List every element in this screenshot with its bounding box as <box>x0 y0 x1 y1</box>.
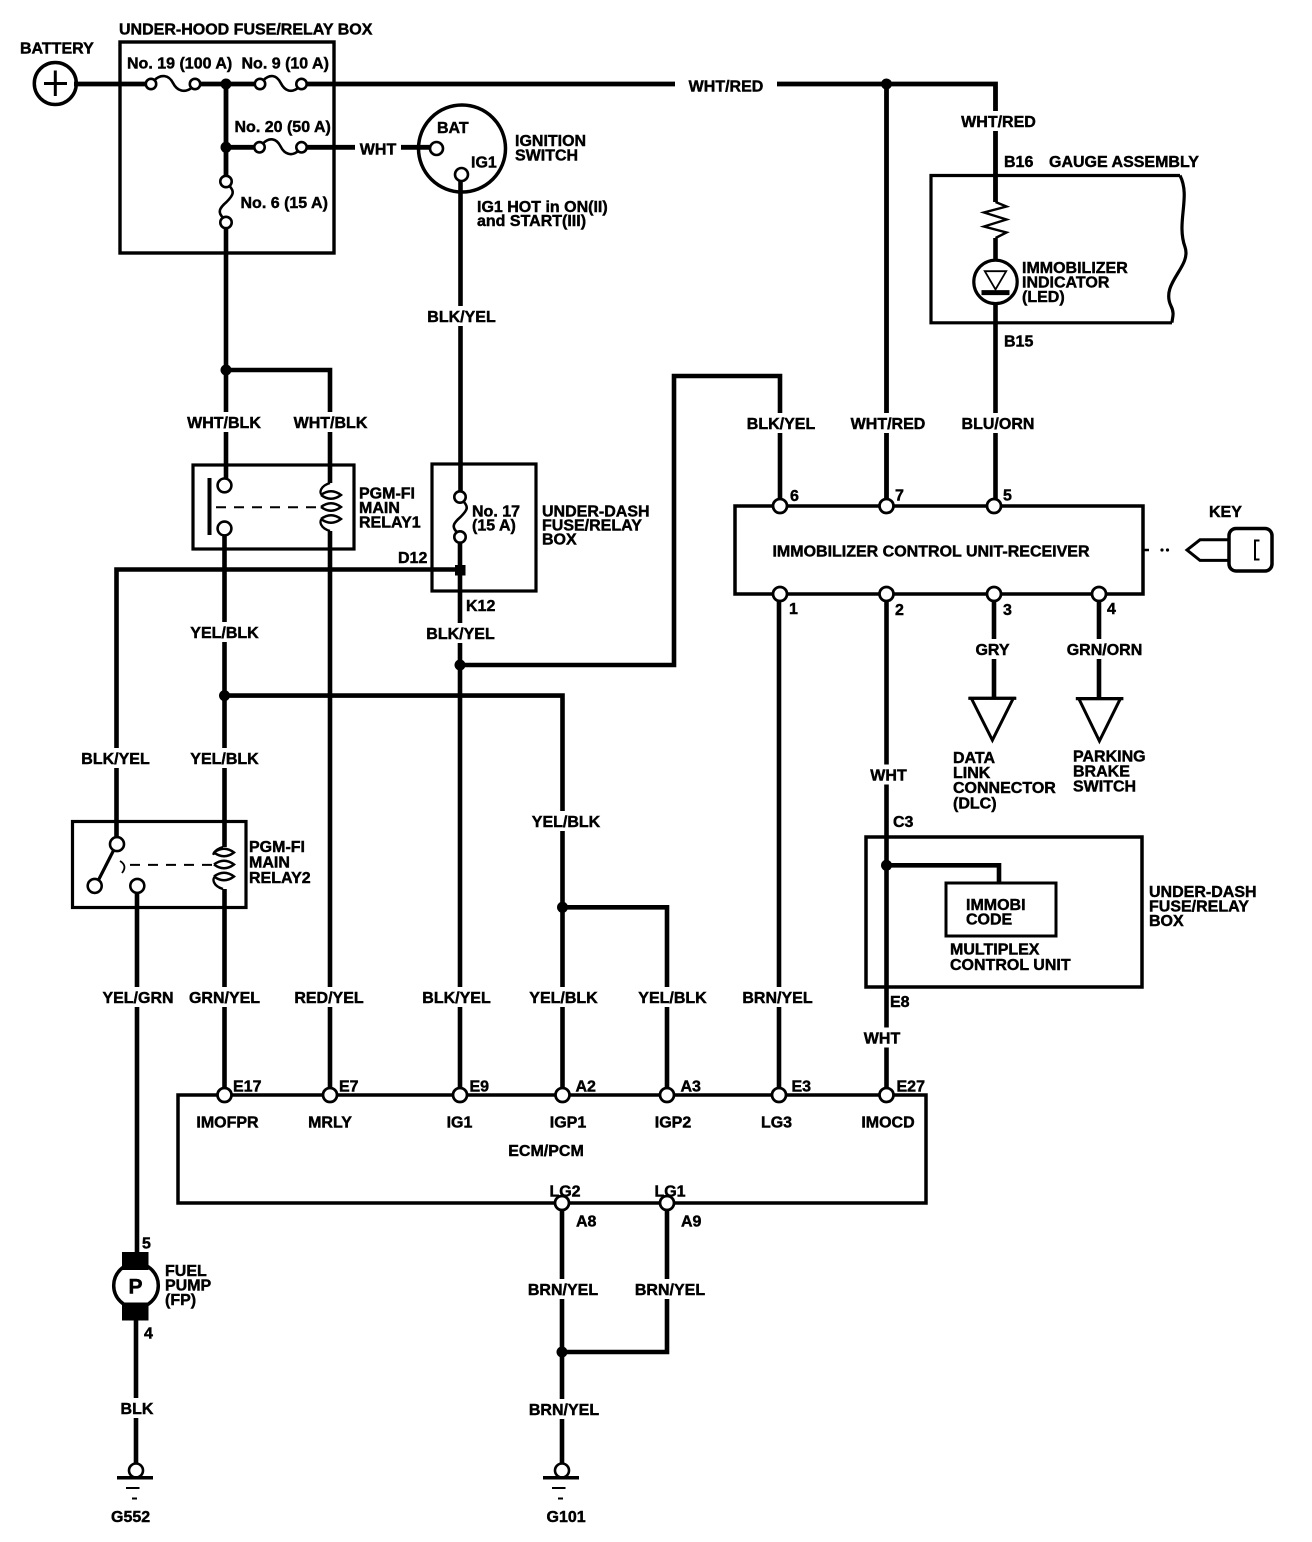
svg-text:LG2: LG2 <box>549 1184 580 1201</box>
wire GRN/ORN immobilizer pin 4 to parking brake switch arrow <box>1097 600 1102 698</box>
svg-text:No. 20 (50 A): No. 20 (50 A) <box>235 119 331 136</box>
svg-text:B16: B16 <box>1004 154 1033 171</box>
svg-text:YEL/BLK: YEL/BLK <box>532 814 601 831</box>
svg-text:ECM/PCM: ECM/PCM <box>508 1143 584 1160</box>
ECM top pins <box>218 1088 232 1102</box>
svg-text:A2: A2 <box>576 1079 597 1096</box>
svg-text:WHT: WHT <box>870 768 907 785</box>
label YEL/BLK A3 <box>637 987 709 1007</box>
svg-text:IG1: IG1 <box>447 1115 473 1132</box>
wire BLU/ORN LED B15 down to immobilizer pin 5 <box>993 302 998 500</box>
label YEL/GRN <box>101 987 175 1007</box>
svg-text:CONTROL UNIT: CONTROL UNIT <box>950 957 1071 974</box>
svg-text:WHT/RED: WHT/RED <box>689 79 764 96</box>
wire main WHT/RED bus to gauge assembly corner <box>307 84 996 202</box>
label BLK/YEL K12 <box>426 623 496 643</box>
svg-text:MULTIPLEX: MULTIPLEX <box>950 942 1040 959</box>
svg-text:(LED): (LED) <box>1022 289 1065 306</box>
label YEL/BLK A2 <box>528 987 600 1007</box>
immobilizer indicator LED <box>974 260 1017 303</box>
wire RED/YEL relay1 coil down to ECM pin E7 <box>328 531 333 1089</box>
wire BLK fuel pump down to ground G552 <box>134 1320 139 1465</box>
svg-text:KEY: KEY <box>1209 504 1242 521</box>
fuse No.19 (100 A) <box>146 79 156 89</box>
wire BRN/YEL ECM LG2 down to ground junction <box>560 1209 565 1352</box>
svg-text:YEL/BLK: YEL/BLK <box>638 990 707 1007</box>
svg-text:No. 9 (10 A): No. 9 (10 A) <box>242 56 329 73</box>
svg-text:E9: E9 <box>470 1079 490 1096</box>
label BLU/ORN pin5 <box>958 413 1038 433</box>
svg-text:No. 6 (15 A): No. 6 (15 A) <box>241 195 328 212</box>
node YEL/BLK A2/A3 junction <box>557 902 568 913</box>
svg-text:4: 4 <box>144 1326 153 1343</box>
svg-text:IMOCD: IMOCD <box>861 1115 914 1132</box>
svg-text:BRN/YEL: BRN/YEL <box>529 1402 599 1419</box>
relay1 coil <box>321 483 330 495</box>
node bus-fusebox junction <box>221 79 232 90</box>
svg-text:YEL/BLK: YEL/BLK <box>190 625 259 642</box>
wire D12 horizontal to left column <box>117 570 461 838</box>
ECM bottom pins LG2 LG1 <box>555 1196 569 1210</box>
ECM/PCM box <box>178 1095 926 1203</box>
PGM-FI main relay1 box <box>193 465 354 549</box>
svg-text:PGM-FI: PGM-FI <box>249 839 305 856</box>
svg-text:WHT: WHT <box>864 1031 901 1048</box>
svg-text:BAT: BAT <box>437 120 469 137</box>
svg-text:GRY: GRY <box>975 642 1009 659</box>
node No.20 tap <box>221 142 232 153</box>
under-hood fuse/relay box <box>120 42 334 253</box>
key symbol <box>1229 529 1272 572</box>
svg-text:4: 4 <box>1107 601 1116 618</box>
svg-text:WHT/RED: WHT/RED <box>851 416 926 433</box>
svg-text:IMMOBILIZER CONTROL UNIT-RECEI: IMMOBILIZER CONTROL UNIT-RECEIVER <box>772 544 1089 561</box>
svg-text:BLK/YEL: BLK/YEL <box>426 626 495 643</box>
under-dash fuse/relay box (multiplex) <box>866 837 1142 987</box>
ignition switch <box>419 105 506 192</box>
svg-text:RED/YEL: RED/YEL <box>294 990 364 1007</box>
wire YEL/BLK down to relay2 coil <box>222 696 227 847</box>
svg-text:BATTERY: BATTERY <box>20 41 94 58</box>
wire No.20 row to WHT to ignition BAT terminal <box>226 145 254 150</box>
relay1 fixed contact bar <box>208 478 212 535</box>
wire WHT immobilizer pin 2 down through under-dash box to ECM pin E27 <box>884 600 889 1089</box>
label BRN/YEL G101 <box>527 1399 601 1419</box>
label BLK/YEL E9 <box>422 987 492 1007</box>
svg-text:(FP): (FP) <box>165 1292 196 1309</box>
svg-text:YEL/BLK: YEL/BLK <box>529 990 598 1007</box>
node bus to pin7 junction <box>881 79 892 90</box>
wire BLK/YEL ignition IG1 down to under-dash fuse box No.17 <box>458 181 463 492</box>
svg-text:BOX: BOX <box>1149 913 1184 930</box>
svg-text:WHT/RED: WHT/RED <box>961 114 1036 131</box>
wire GRN/YEL relay2 coil down to ECM pin E17 <box>222 889 227 1089</box>
label YEL/BLK relay1 out <box>189 622 261 642</box>
label BRN/YEL LG1 <box>633 1279 707 1299</box>
wire BLK/YEL fuse No.17 to D12 junction to E9 column <box>458 543 463 1090</box>
svg-text:BLK/YEL: BLK/YEL <box>747 416 816 433</box>
svg-text:IGP2: IGP2 <box>655 1115 692 1132</box>
under-dash fuse/relay box (No.17) <box>432 464 536 591</box>
svg-text:BRN/YEL: BRN/YEL <box>742 990 812 1007</box>
svg-text:BRN/YEL: BRN/YEL <box>635 1282 705 1299</box>
wire BRN/YEL immobilizer pin 1 down to ECM pin E3 <box>777 600 782 1089</box>
svg-text:WHT/BLK: WHT/BLK <box>294 415 368 432</box>
svg-text:A3: A3 <box>681 1079 702 1096</box>
relay2 pivot hook <box>120 861 124 873</box>
label BRN/YEL E3 <box>741 987 815 1007</box>
label GRN/ORN <box>1064 639 1146 659</box>
svg-text:3: 3 <box>1003 602 1012 619</box>
svg-text:7: 7 <box>895 488 904 505</box>
svg-text:E8: E8 <box>890 994 910 1011</box>
svg-text:IG1: IG1 <box>471 155 497 172</box>
label BLK fuel pump <box>119 1398 155 1418</box>
label BLK/YEL left column <box>81 748 151 768</box>
wire YEL/BLK junction branch to A2/A3 columns <box>225 696 563 908</box>
wire battery to under-hood box bus <box>74 82 146 87</box>
svg-text:BOX: BOX <box>542 532 577 549</box>
wire GRY immobilizer pin 3 to data link connector arrow <box>992 600 997 697</box>
svg-text:E27: E27 <box>897 1079 926 1096</box>
label WHT/RED gauge branch <box>959 111 1039 131</box>
svg-text:1: 1 <box>789 601 798 618</box>
svg-text:6: 6 <box>790 488 799 505</box>
wire gauge assembly B16 resistor to LED <box>993 238 998 261</box>
wire WHT/RED bus junction down to immobilizer pin 7 <box>884 84 889 500</box>
svg-text:IGP1: IGP1 <box>550 1115 587 1132</box>
svg-text:5: 5 <box>142 1236 151 1253</box>
svg-text:G101: G101 <box>547 1509 586 1526</box>
node BRN/YEL ground junction <box>557 1347 568 1358</box>
svg-text:RELAY2: RELAY2 <box>249 870 311 887</box>
svg-text:SWITCH: SWITCH <box>1073 779 1136 796</box>
label WHT pin2 <box>868 765 910 785</box>
wire YEL/BLK down to ECM pin A2 <box>560 907 565 1089</box>
relay2 dashed link <box>130 864 212 866</box>
label WHT E8 <box>861 1028 903 1048</box>
svg-text:(DLC): (DLC) <box>953 796 997 813</box>
svg-text:BLK/YEL: BLK/YEL <box>81 751 150 768</box>
battery <box>34 63 76 105</box>
svg-text:G552: G552 <box>111 1509 150 1526</box>
svg-text:WHT/BLK: WHT/BLK <box>187 415 261 432</box>
wire fuse box column down No.20/No.6 <box>224 84 229 176</box>
fuse No.9 (10 A) <box>255 79 265 89</box>
fuse No.20 (50 A) <box>254 142 264 152</box>
svg-text:B15: B15 <box>1004 334 1033 351</box>
node YEL/BLK junction <box>219 690 230 701</box>
parking brake switch arrow <box>1076 697 1124 700</box>
svg-text:D12: D12 <box>398 550 427 567</box>
data link connector arrow <box>968 697 1016 700</box>
relay1 contacts <box>218 479 232 493</box>
svg-text:(15 A): (15 A) <box>472 518 516 535</box>
label BLK/YEL pin6 <box>746 413 816 433</box>
node D12 junction <box>455 565 466 576</box>
gauge assembly box with torn right edge <box>931 176 1180 323</box>
svg-text:C3: C3 <box>893 814 914 831</box>
PGM-FI main relay2 box <box>73 822 247 908</box>
svg-text:No. 19 (100 A): No. 19 (100 A) <box>127 56 232 73</box>
ground G552 <box>129 1464 143 1478</box>
svg-text:YEL/BLK: YEL/BLK <box>190 751 259 768</box>
svg-text:K12: K12 <box>466 598 495 615</box>
immobilizer box pins 1 2 3 4 <box>773 587 787 601</box>
label WHT/RED top bus <box>675 76 777 96</box>
wire YEL/BLK jog to A3 column <box>563 907 668 1089</box>
label BLK/YEL ignition IG1 <box>426 306 498 326</box>
svg-text:E7: E7 <box>339 1079 359 1096</box>
relay2 switch blade <box>99 851 114 881</box>
svg-text:BLK: BLK <box>121 1401 154 1418</box>
wire BLK/YEL from K12 junction to immobilizer pin 6 elbow <box>460 376 780 665</box>
svg-text:BLU/ORN: BLU/ORN <box>962 416 1035 433</box>
svg-text:2: 2 <box>895 602 904 619</box>
wire BRN/YEL ECM LG1 down and over to junction <box>562 1209 667 1352</box>
svg-text:LG1: LG1 <box>654 1184 685 1201</box>
node WHT/BLK branch junction <box>221 365 232 376</box>
svg-text:YEL/GRN: YEL/GRN <box>102 990 173 1007</box>
node K12 BLK/YEL junction <box>455 660 466 671</box>
fuse No.17 (15 A) <box>454 491 465 502</box>
immobi code box <box>946 883 1056 936</box>
wire YEL/GRN relay2 switch down to fuel pump <box>135 893 140 1252</box>
svg-text:CODE: CODE <box>966 912 1013 929</box>
label YEL/BLK mid column <box>189 748 261 768</box>
svg-text:A9: A9 <box>681 1214 702 1231</box>
svg-text:BLK/YEL: BLK/YEL <box>422 990 491 1007</box>
node multiplex branch junction <box>881 860 892 871</box>
label WHT ignition feed <box>355 139 401 159</box>
ground G101 <box>555 1464 569 1478</box>
relay1 dashed link <box>216 506 318 508</box>
svg-text:UNDER-HOOD FUSE/RELAY BOX: UNDER-HOOD FUSE/RELAY BOX <box>119 22 373 39</box>
svg-text:E3: E3 <box>792 1079 812 1096</box>
wire under-dash box branch to immobi code block <box>887 865 1000 884</box>
wire WHT/BLK branch to relay1 coil <box>226 370 330 483</box>
svg-text:BRN/YEL: BRN/YEL <box>528 1282 598 1299</box>
svg-text:MAIN: MAIN <box>249 855 290 872</box>
wire WHT/BLK from fuse No.6 down to PGM-FI main relay1 contact <box>224 228 229 479</box>
resistor in gauge assembly <box>984 202 1007 238</box>
svg-text:P: P <box>128 1276 142 1299</box>
fuse No.6 (15 A) <box>220 176 231 187</box>
label RED/YEL <box>292 987 366 1007</box>
relay2 contacts <box>110 837 124 851</box>
fuel pump (FP) <box>122 1252 149 1270</box>
svg-text:A8: A8 <box>576 1214 597 1231</box>
svg-text:IMOFPR: IMOFPR <box>196 1115 259 1132</box>
svg-text:E17: E17 <box>233 1079 262 1096</box>
label YEL/BLK A2 upper <box>530 811 602 831</box>
svg-text:LG3: LG3 <box>761 1115 792 1132</box>
label GRY <box>973 639 1013 659</box>
svg-text:GAUGE ASSEMBLY: GAUGE ASSEMBLY <box>1049 154 1199 171</box>
key dotted link <box>1143 549 1149 552</box>
wire relay1 contact out YEL/BLK down to junction <box>222 535 227 696</box>
relay2 coil <box>214 847 223 854</box>
label BRN/YEL LG2 <box>526 1279 600 1299</box>
label GRN/YEL <box>188 987 262 1007</box>
svg-text:GRN/ORN: GRN/ORN <box>1067 642 1143 659</box>
label WHT/BLK relay1 contact feed <box>186 412 262 432</box>
svg-text:5: 5 <box>1003 488 1012 505</box>
label WHT/BLK relay1 coil feed <box>293 412 369 432</box>
svg-text:WHT: WHT <box>360 142 397 159</box>
immobilizer box pins 6 7 5 <box>773 499 787 513</box>
svg-text:RELAY1: RELAY1 <box>359 515 421 532</box>
wire bus fuse19-fuse9 segment <box>200 82 255 87</box>
wire BRN/YEL junction down to ground G101 <box>560 1352 565 1464</box>
label WHT/RED pin7 <box>848 413 928 433</box>
svg-text:BLK/YEL: BLK/YEL <box>427 309 496 326</box>
immobilizer control unit-receiver box <box>735 506 1143 594</box>
svg-text:CONNECTOR: CONNECTOR <box>953 780 1056 797</box>
svg-text:SWITCH: SWITCH <box>515 148 578 165</box>
svg-text:and START(III): and START(III) <box>477 213 586 230</box>
svg-text:GRN/YEL: GRN/YEL <box>189 990 260 1007</box>
svg-text:MRLY: MRLY <box>308 1115 352 1132</box>
